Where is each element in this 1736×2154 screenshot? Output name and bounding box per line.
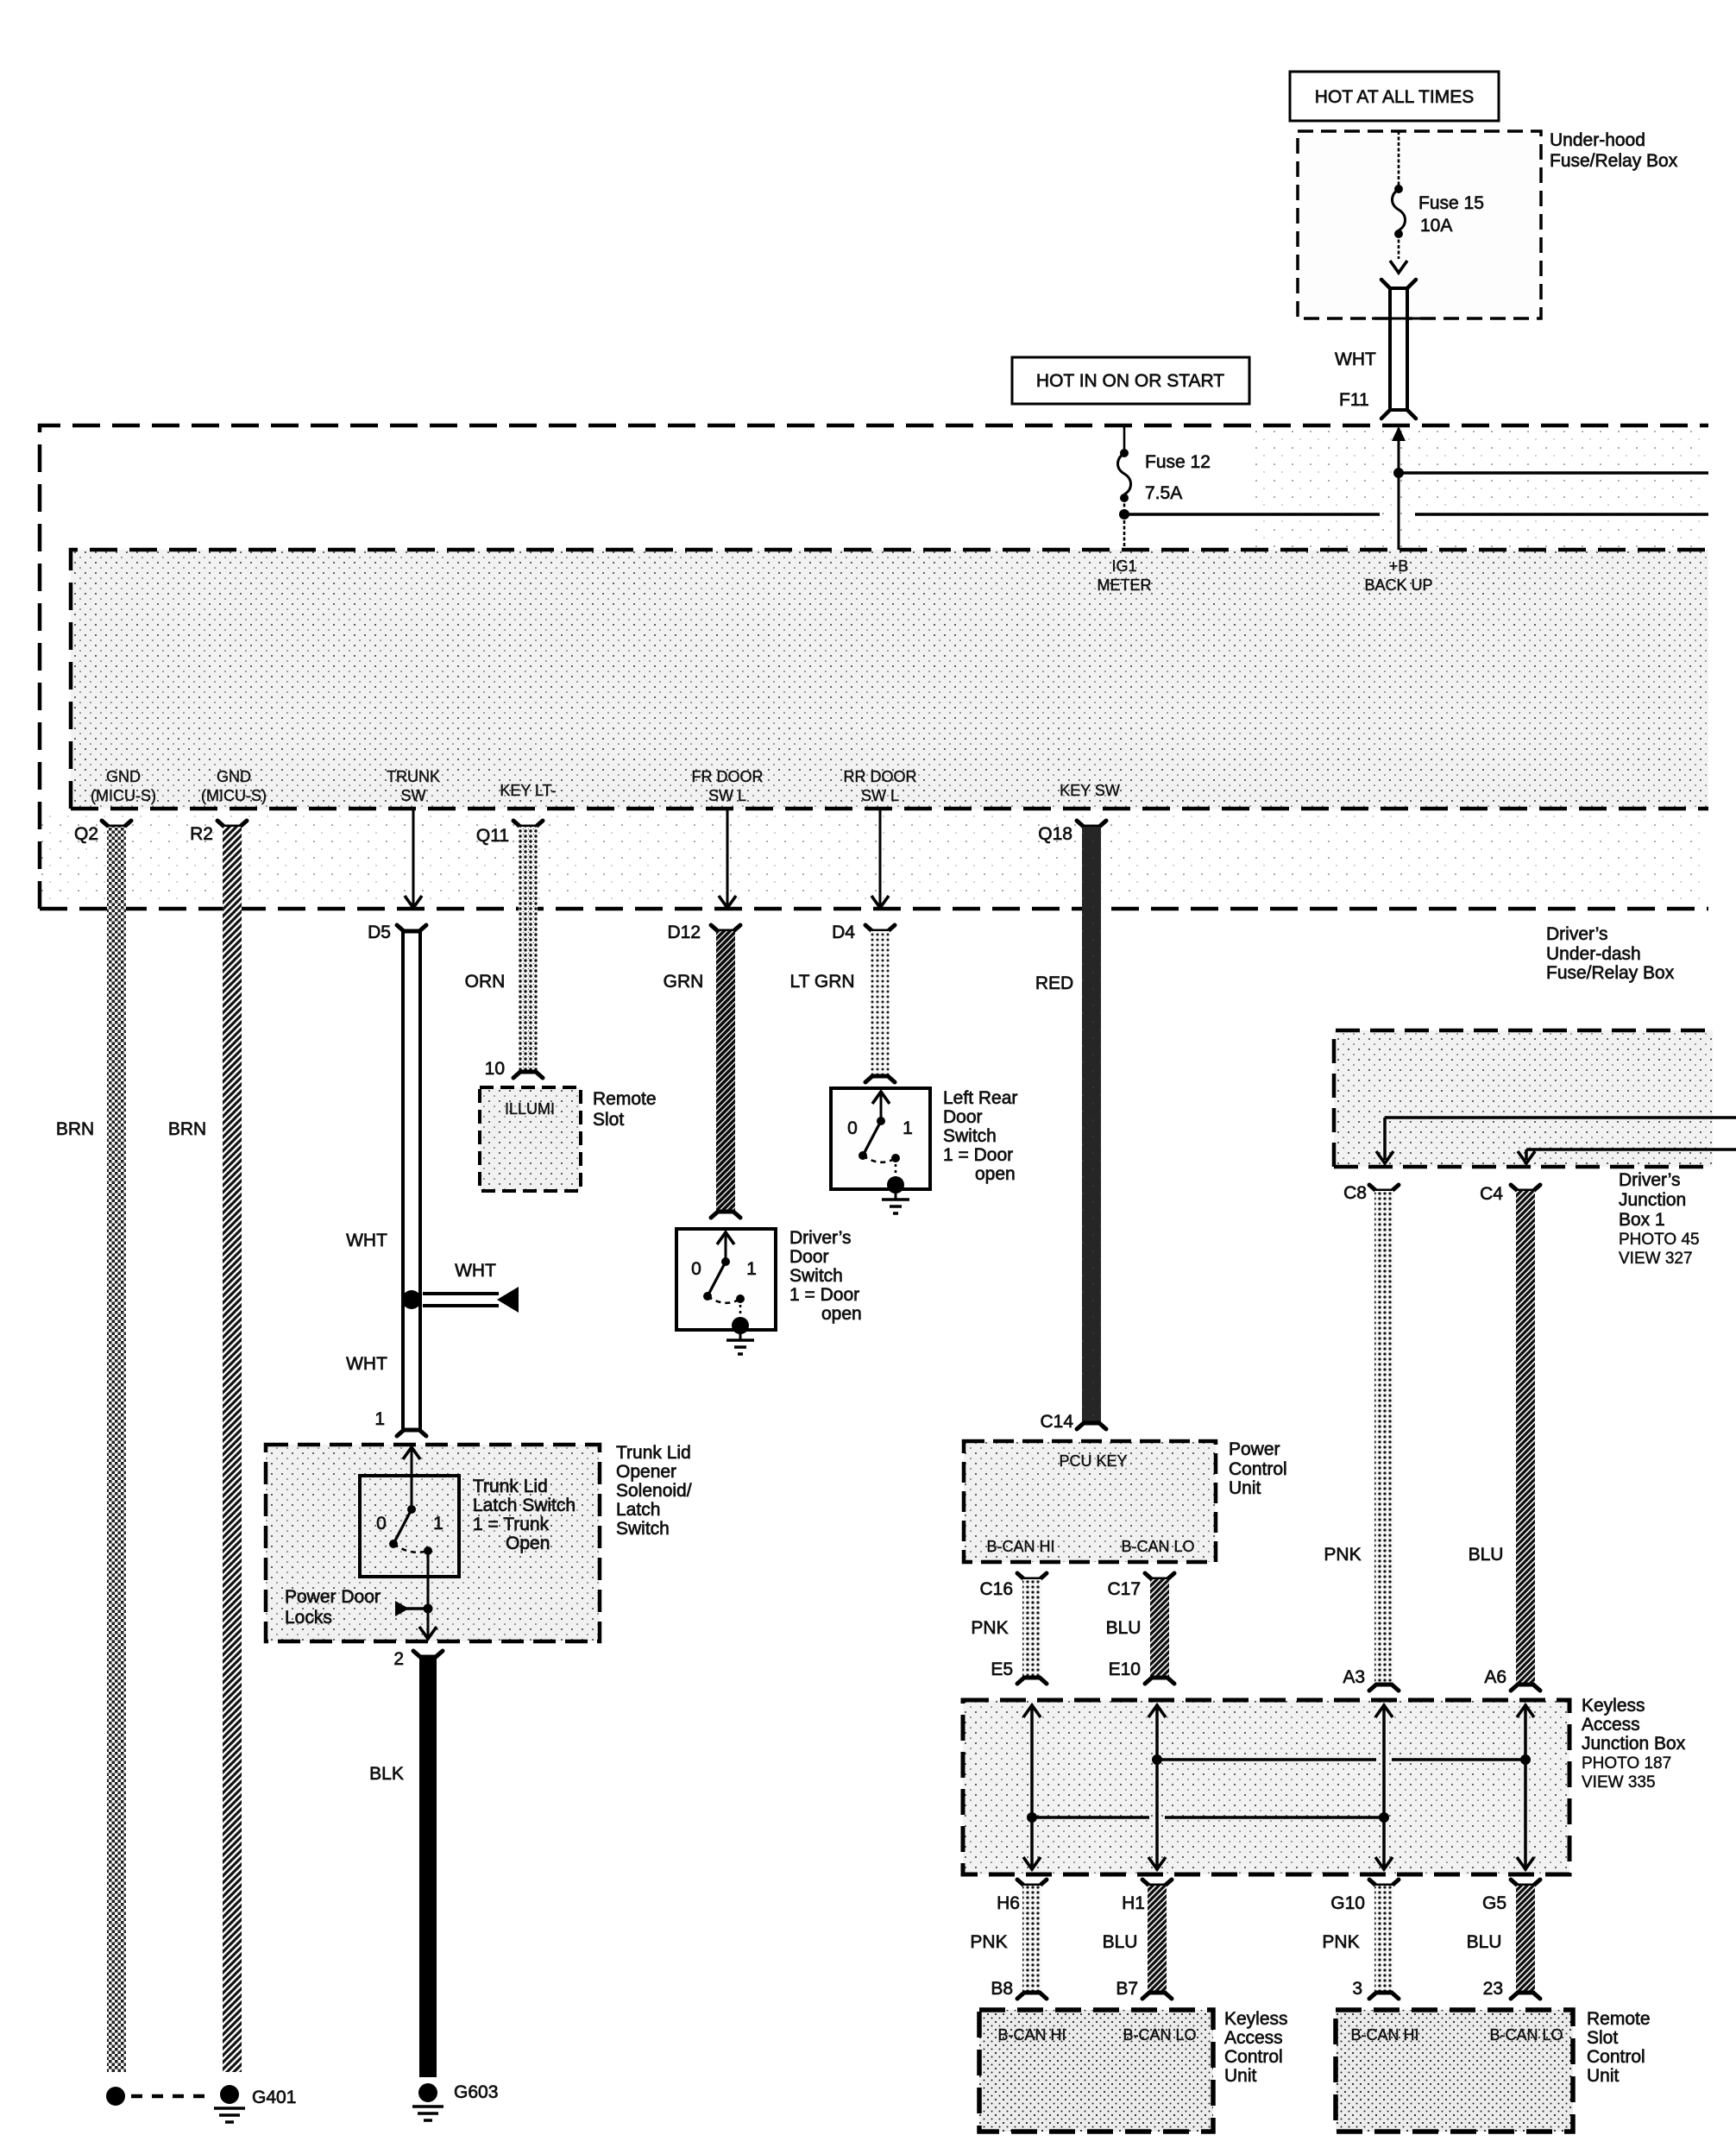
Keyless Access Control Unit bbox=[979, 2009, 1288, 2132]
svg-text:PNK: PNK bbox=[1324, 1545, 1361, 1565]
connector at left rear door switch bbox=[865, 1076, 895, 1082]
svg-text:B-CAN LO: B-CAN LO bbox=[1121, 1538, 1194, 1555]
connector G5 bbox=[1482, 1880, 1540, 1913]
svg-text:D4: D4 bbox=[832, 923, 855, 942]
wire WHT branch to other circuit (off-page arrow) bbox=[423, 1261, 519, 1313]
connector C14 bbox=[1040, 1412, 1106, 1432]
wire from latch switch to pin 2 bbox=[419, 1551, 437, 1639]
svg-text:A3: A3 bbox=[1343, 1667, 1365, 1687]
ground G603 bbox=[412, 2082, 498, 2120]
svg-text:0: 0 bbox=[691, 1259, 701, 1279]
ground at left rear door switch bbox=[882, 1189, 909, 1213]
Under-hood Fuse/Relay Box bbox=[1298, 130, 1678, 318]
connector D4 bbox=[832, 923, 895, 942]
switch Left Rear Door Switch bbox=[831, 1088, 1017, 1194]
svg-text:H1: H1 bbox=[1122, 1893, 1145, 1913]
svg-text:WHT: WHT bbox=[455, 1261, 496, 1281]
svg-text:Junction: Junction bbox=[1619, 1190, 1686, 1210]
svg-text:PNK: PNK bbox=[971, 1618, 1008, 1638]
svg-text:Trunk Lid: Trunk Lid bbox=[473, 1477, 548, 1496]
svg-text:Q2: Q2 bbox=[74, 824, 98, 844]
svg-text:PHOTO 187: PHOTO 187 bbox=[1582, 1754, 1671, 1773]
fuse Fuse 12 7.5A bbox=[1118, 427, 1211, 550]
svg-text:BLU: BLU bbox=[1103, 1932, 1138, 1952]
switch Trunk Lid Latch Switch bbox=[360, 1476, 576, 1577]
svg-text:3: 3 bbox=[1352, 1979, 1362, 1999]
svg-text:2: 2 bbox=[393, 1649, 404, 1669]
node junction on WHT wire bbox=[402, 1290, 421, 1309]
svg-text:C14: C14 bbox=[1040, 1412, 1073, 1432]
wire BRN from Q2 bbox=[56, 827, 126, 2072]
switch Driver's Door Switch bbox=[676, 1228, 862, 1334]
wire dashed link to G401 bbox=[131, 2094, 214, 2099]
Remote Slot Control Unit bbox=[1336, 2009, 1651, 2132]
wire PNK (C16 to E5) bbox=[971, 1579, 1041, 1678]
svg-text:Remote: Remote bbox=[1587, 2009, 1651, 2029]
connector R2 bbox=[190, 821, 247, 844]
svg-text:Fuse/Relay Box: Fuse/Relay Box bbox=[1550, 151, 1678, 171]
wire WHT (trunk sw, double line) bbox=[346, 931, 420, 1430]
pin IG1 METER bbox=[1098, 557, 1152, 594]
svg-text:GND: GND bbox=[106, 768, 141, 785]
svg-text:G10: G10 bbox=[1330, 1893, 1365, 1913]
connector 3 bbox=[1352, 1979, 1399, 1999]
wire ORN from Q11 bbox=[465, 827, 538, 1072]
svg-text:BRN: BRN bbox=[56, 1119, 94, 1139]
svg-text:F11: F11 bbox=[1339, 390, 1369, 410]
wire PNK (C8 to A3) bbox=[1324, 1191, 1393, 1685]
svg-text:Door: Door bbox=[789, 1247, 829, 1267]
svg-text:HOT AT ALL TIMES: HOT AT ALL TIMES bbox=[1315, 87, 1474, 107]
svg-text:Under-dash: Under-dash bbox=[1546, 944, 1641, 964]
svg-text:Junction Box: Junction Box bbox=[1582, 1734, 1686, 1754]
svg-text:ORN: ORN bbox=[465, 972, 506, 992]
svg-text:Left Rear: Left Rear bbox=[943, 1088, 1017, 1108]
connector B8 bbox=[991, 1979, 1047, 1999]
svg-text:C8: C8 bbox=[1343, 1183, 1367, 1203]
svg-text:Driver’s: Driver’s bbox=[1546, 924, 1608, 944]
svg-text:0: 0 bbox=[376, 1514, 387, 1534]
svg-text:PHOTO 45: PHOTO 45 bbox=[1619, 1231, 1700, 1249]
label box HOT AT ALL TIMES bbox=[1290, 72, 1499, 121]
Remote Slot box bbox=[480, 1087, 657, 1191]
wire inside junction box to C8 bbox=[1376, 1118, 1736, 1163]
svg-text:PNK: PNK bbox=[1322, 1932, 1359, 1952]
svg-text:C4: C4 bbox=[1480, 1184, 1503, 1204]
wire bus from Fuse 12 to right edge (crossing +B wire) bbox=[1124, 513, 1708, 516]
connector F11 bbox=[1335, 280, 1431, 419]
svg-text:open: open bbox=[821, 1304, 862, 1324]
svg-text:Under-hood: Under-hood bbox=[1550, 130, 1645, 150]
pin FR DOOR SW L bbox=[692, 768, 764, 804]
svg-text:PCU KEY: PCU KEY bbox=[1059, 1452, 1127, 1470]
svg-text:Solenoid/: Solenoid/ bbox=[616, 1481, 692, 1501]
connector Q18 bbox=[1038, 821, 1106, 844]
svg-text:D12: D12 bbox=[667, 923, 701, 942]
connector H1 bbox=[1122, 1880, 1172, 1913]
svg-text:Access: Access bbox=[1224, 2028, 1283, 2048]
connector pin 1 of trunk lid opener bbox=[374, 1409, 426, 1436]
wire GRN bbox=[664, 931, 735, 1212]
node splice at bottom of BRN wire 1 bbox=[106, 2087, 125, 2106]
svg-text:23: 23 bbox=[1483, 1979, 1503, 1999]
wire TRUNK SW stub arrow bbox=[405, 809, 422, 908]
Power Control Unit box bbox=[964, 1439, 1287, 1562]
wire E5-H6 inside junction box bbox=[1023, 1704, 1041, 1870]
svg-text:KEY LT-: KEY LT- bbox=[500, 782, 556, 799]
svg-text:FR DOOR: FR DOOR bbox=[692, 768, 764, 785]
svg-text:1 = Door: 1 = Door bbox=[789, 1285, 859, 1305]
connector Q2 bbox=[74, 821, 131, 844]
svg-text:Q11: Q11 bbox=[476, 826, 509, 846]
svg-text:Q18: Q18 bbox=[1038, 824, 1072, 844]
svg-text:SW L: SW L bbox=[708, 787, 746, 804]
svg-text:Box 1: Box 1 bbox=[1619, 1210, 1665, 1230]
wire BLU (H1 to B7) bbox=[1103, 1886, 1167, 1993]
wire BLU (C17 to E10) bbox=[1106, 1579, 1169, 1678]
pin GND (MICU-S) at Q2 bbox=[91, 768, 156, 804]
svg-text:Control: Control bbox=[1224, 2047, 1283, 2067]
svg-text:G5: G5 bbox=[1482, 1893, 1506, 1913]
MICU (inner shaded box inside fuse/relay box) bbox=[71, 550, 1708, 809]
connector B7 bbox=[1116, 1979, 1172, 1999]
svg-text:B-CAN LO: B-CAN LO bbox=[1489, 2026, 1563, 2044]
connector C16 bbox=[979, 1573, 1047, 1599]
svg-text:Unit: Unit bbox=[1229, 1478, 1261, 1498]
svg-text:10: 10 bbox=[485, 1059, 505, 1079]
connector A6 bbox=[1484, 1667, 1540, 1691]
ground G401 bbox=[214, 2085, 296, 2122]
svg-text:HOT IN ON OR START: HOT IN ON OR START bbox=[1036, 371, 1224, 391]
wire LT GRN bbox=[789, 931, 890, 1076]
connector C8 bbox=[1343, 1183, 1399, 1203]
svg-text:BACK UP: BACK UP bbox=[1364, 576, 1432, 594]
svg-text:0: 0 bbox=[847, 1118, 858, 1138]
svg-text:10A: 10A bbox=[1420, 216, 1452, 236]
svg-text:(MICU-S): (MICU-S) bbox=[91, 787, 156, 804]
connector D5 bbox=[368, 923, 426, 942]
svg-text:Unit: Unit bbox=[1587, 2066, 1620, 2086]
svg-text:E5: E5 bbox=[991, 1660, 1013, 1679]
svg-text:Power Door: Power Door bbox=[285, 1587, 381, 1607]
connector E5 bbox=[991, 1660, 1047, 1684]
Trunk Lid Opener Solenoid/Latch Switch box bbox=[266, 1443, 692, 1641]
svg-text:Driver’s: Driver’s bbox=[789, 1228, 852, 1248]
svg-text:WHT: WHT bbox=[346, 1354, 387, 1374]
svg-text:SW: SW bbox=[401, 787, 426, 804]
svg-text:Switch: Switch bbox=[616, 1519, 670, 1539]
pin TRUNK SW bbox=[387, 768, 440, 804]
wire B-CAN LO crossbar bbox=[1152, 1754, 1531, 1765]
svg-text:TRUNK: TRUNK bbox=[387, 768, 440, 785]
wire A6-G5 inside junction box bbox=[1517, 1704, 1534, 1870]
svg-text:Opener: Opener bbox=[616, 1462, 676, 1482]
svg-text:Keyless: Keyless bbox=[1582, 1696, 1645, 1716]
connector at driver's door switch bbox=[711, 1212, 740, 1218]
connector H6 bbox=[997, 1880, 1047, 1913]
wire PNK (G10 to 3) bbox=[1322, 1886, 1393, 1993]
wire BRN from R2 bbox=[168, 827, 242, 2072]
svg-text:Keyless: Keyless bbox=[1224, 2009, 1288, 2029]
svg-text:1: 1 bbox=[746, 1259, 757, 1279]
svg-text:B-CAN HI: B-CAN HI bbox=[986, 1538, 1054, 1555]
wire A3-G10 inside junction box bbox=[1375, 1704, 1393, 1870]
svg-text:H6: H6 bbox=[997, 1893, 1020, 1913]
svg-text:IG1: IG1 bbox=[1111, 557, 1136, 575]
connector Q11 bbox=[476, 821, 543, 846]
connector D12 bbox=[667, 923, 740, 942]
svg-text:Trunk Lid: Trunk Lid bbox=[616, 1443, 691, 1463]
svg-text:D5: D5 bbox=[368, 923, 391, 942]
wire bus from +B junction to right edge bbox=[1399, 471, 1708, 475]
fuse Fuse 15 10A bbox=[1390, 131, 1484, 273]
svg-text:B-CAN LO: B-CAN LO bbox=[1123, 2026, 1196, 2044]
connector C17 bbox=[1107, 1573, 1174, 1599]
connector C4 bbox=[1480, 1184, 1540, 1204]
svg-text:WHT: WHT bbox=[1335, 350, 1376, 369]
svg-text:PNK: PNK bbox=[970, 1932, 1007, 1952]
pin +B BACK UP bbox=[1364, 557, 1432, 594]
Keyless Access Junction Box bbox=[963, 1696, 1686, 1874]
svg-text:LT GRN: LT GRN bbox=[789, 972, 854, 992]
svg-text:C17: C17 bbox=[1107, 1579, 1141, 1599]
label box HOT IN ON OR START bbox=[1012, 357, 1249, 404]
pin RR DOOR SW L bbox=[844, 768, 917, 804]
svg-text:Control: Control bbox=[1587, 2047, 1645, 2067]
svg-text:Control: Control bbox=[1229, 1459, 1287, 1479]
svg-text:A6: A6 bbox=[1484, 1667, 1506, 1687]
svg-text:METER: METER bbox=[1098, 576, 1152, 594]
connector 23 bbox=[1483, 1979, 1540, 1999]
svg-text:B-CAN HI: B-CAN HI bbox=[997, 2026, 1066, 2044]
Driver's Under-dash Fuse/Relay Box (outer dashed box) bbox=[40, 425, 1708, 983]
svg-text:BLK: BLK bbox=[369, 1764, 404, 1784]
connector G10 bbox=[1330, 1880, 1399, 1913]
wire +B vertical with arrow to F11 bbox=[1392, 426, 1406, 550]
svg-text:SW L: SW L bbox=[861, 787, 899, 804]
svg-text:G401: G401 bbox=[252, 2088, 296, 2107]
wire FR DOOR SW L stub arrow bbox=[719, 809, 736, 908]
svg-text:RR DOOR: RR DOOR bbox=[844, 768, 917, 785]
svg-text:KEY SW: KEY SW bbox=[1060, 782, 1120, 799]
svg-text:+B: +B bbox=[1389, 557, 1409, 575]
connector A3 bbox=[1343, 1667, 1399, 1691]
svg-text:1: 1 bbox=[374, 1409, 385, 1429]
svg-text:B8: B8 bbox=[991, 1979, 1013, 1999]
svg-text:Fuse/Relay Box: Fuse/Relay Box bbox=[1546, 963, 1675, 983]
svg-text:WHT: WHT bbox=[346, 1231, 387, 1250]
svg-text:E10: E10 bbox=[1109, 1660, 1141, 1679]
svg-text:RED: RED bbox=[1035, 973, 1073, 993]
svg-text:B7: B7 bbox=[1116, 1979, 1138, 1999]
wire inside junction box to C4 bbox=[1518, 1149, 1736, 1163]
svg-text:Unit: Unit bbox=[1224, 2066, 1257, 2086]
svg-text:Access: Access bbox=[1582, 1715, 1640, 1735]
svg-text:open: open bbox=[975, 1164, 1016, 1184]
node Power Door Locks tap bbox=[285, 1587, 433, 1628]
svg-text:BLU: BLU bbox=[1467, 1932, 1502, 1952]
svg-text:Fuse 12: Fuse 12 bbox=[1145, 452, 1211, 472]
svg-text:Power: Power bbox=[1229, 1439, 1280, 1459]
wire arrow into trunk box bbox=[403, 1447, 420, 1509]
svg-text:Switch: Switch bbox=[943, 1126, 997, 1146]
svg-text:Fuse 15: Fuse 15 bbox=[1418, 193, 1484, 213]
svg-text:Open: Open bbox=[506, 1534, 550, 1553]
connector E10 bbox=[1109, 1660, 1174, 1684]
svg-text:VIEW 335: VIEW 335 bbox=[1582, 1773, 1656, 1792]
svg-text:B-CAN HI: B-CAN HI bbox=[1350, 2026, 1418, 2044]
svg-text:BLU: BLU bbox=[1106, 1618, 1142, 1638]
svg-text:Locks: Locks bbox=[285, 1608, 332, 1628]
svg-text:R2: R2 bbox=[190, 824, 213, 844]
svg-text:(MICU-S): (MICU-S) bbox=[201, 787, 267, 804]
svg-text:Latch Switch: Latch Switch bbox=[473, 1496, 576, 1515]
wire E10-H1 inside junction box bbox=[1148, 1704, 1166, 1870]
svg-text:GRN: GRN bbox=[664, 972, 704, 992]
wire BLU (G5 to 23) bbox=[1467, 1886, 1535, 1993]
pin GND (MICU-S) at R2 bbox=[201, 768, 267, 804]
wire BLU (C4 to A6) bbox=[1469, 1191, 1535, 1685]
svg-text:1: 1 bbox=[903, 1118, 913, 1138]
svg-text:Driver’s: Driver’s bbox=[1619, 1170, 1681, 1190]
svg-text:1 = Trunk: 1 = Trunk bbox=[473, 1515, 550, 1534]
svg-text:GND: GND bbox=[217, 768, 251, 785]
connector pin 10 of remote slot bbox=[485, 1059, 543, 1079]
svg-text:7.5A: 7.5A bbox=[1145, 483, 1182, 503]
svg-text:1 = Door: 1 = Door bbox=[943, 1145, 1013, 1165]
wire PNK (H6 to B8) bbox=[970, 1886, 1041, 1993]
svg-text:Slot: Slot bbox=[593, 1110, 624, 1130]
svg-text:Switch: Switch bbox=[789, 1266, 843, 1286]
svg-text:C16: C16 bbox=[979, 1579, 1013, 1599]
Driver's Junction Box 1 bbox=[1334, 1030, 1713, 1268]
connector pin 2 of trunk lid opener bbox=[393, 1649, 443, 1669]
ground at driver's door switch bbox=[726, 1330, 754, 1354]
svg-text:1: 1 bbox=[433, 1514, 443, 1534]
svg-text:ILLUMI: ILLUMI bbox=[505, 1100, 555, 1118]
wire RED from Q18 bbox=[1035, 827, 1101, 1423]
svg-text:Door: Door bbox=[943, 1107, 983, 1127]
svg-text:Latch: Latch bbox=[616, 1500, 660, 1520]
wire RR DOOR SW L stub arrow bbox=[871, 809, 889, 908]
wire B-CAN HI crossbar bbox=[1027, 1812, 1389, 1823]
svg-text:G603: G603 bbox=[454, 2082, 498, 2102]
svg-text:VIEW 327: VIEW 327 bbox=[1619, 1250, 1693, 1268]
svg-text:Remote: Remote bbox=[593, 1089, 657, 1109]
svg-text:BLU: BLU bbox=[1469, 1545, 1504, 1565]
svg-text:BRN: BRN bbox=[168, 1119, 206, 1139]
svg-text:Slot: Slot bbox=[1587, 2028, 1618, 2048]
wire BLK bbox=[369, 1657, 437, 2077]
